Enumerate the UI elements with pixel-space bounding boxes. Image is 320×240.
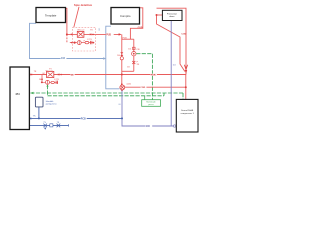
svg-text:4-B1: 4-B1 [126,83,131,85]
svg-text:102: 102 [61,57,66,60]
svg-text:Wasser: Wasser [77,28,85,31]
svg-text:Pressostat: Pressostat [167,13,177,16]
svg-text:M: M [43,73,45,75]
svg-text:Wasser: Wasser [46,69,54,72]
svg-text:M: M [39,79,41,81]
svg-text:POR: POR [151,75,156,77]
svg-text:COD: COD [138,27,143,29]
svg-text:4B3: 4B3 [15,92,20,96]
svg-text:compressor 1: compressor 1 [181,112,195,115]
svg-text:102: 102 [173,65,176,67]
svg-text:COD: COD [181,34,186,36]
svg-text:Template: Template [45,13,57,17]
svg-text:Compito: Compito [120,14,131,18]
svg-text:CB: CB [136,49,140,51]
svg-text:alarm: alarm [169,15,174,18]
svg-text:F1B: F1B [123,37,128,39]
svg-text:Spie detettive: Spie detettive [74,3,93,7]
svg-text:PCB: PCB [81,118,86,120]
svg-text:F TK: F TK [54,79,59,81]
svg-text:Sound 50dB: Sound 50dB [181,110,194,112]
svg-text:102: 102 [99,28,101,31]
svg-text:F TK: F TK [88,39,93,41]
svg-text:press: press [148,103,154,106]
svg-text:4B: 4B [71,74,74,77]
svg-text:PUS: PUS [106,34,111,36]
svg-text:COD: COD [140,87,145,89]
svg-text:pompversn: pompversn [46,102,58,105]
